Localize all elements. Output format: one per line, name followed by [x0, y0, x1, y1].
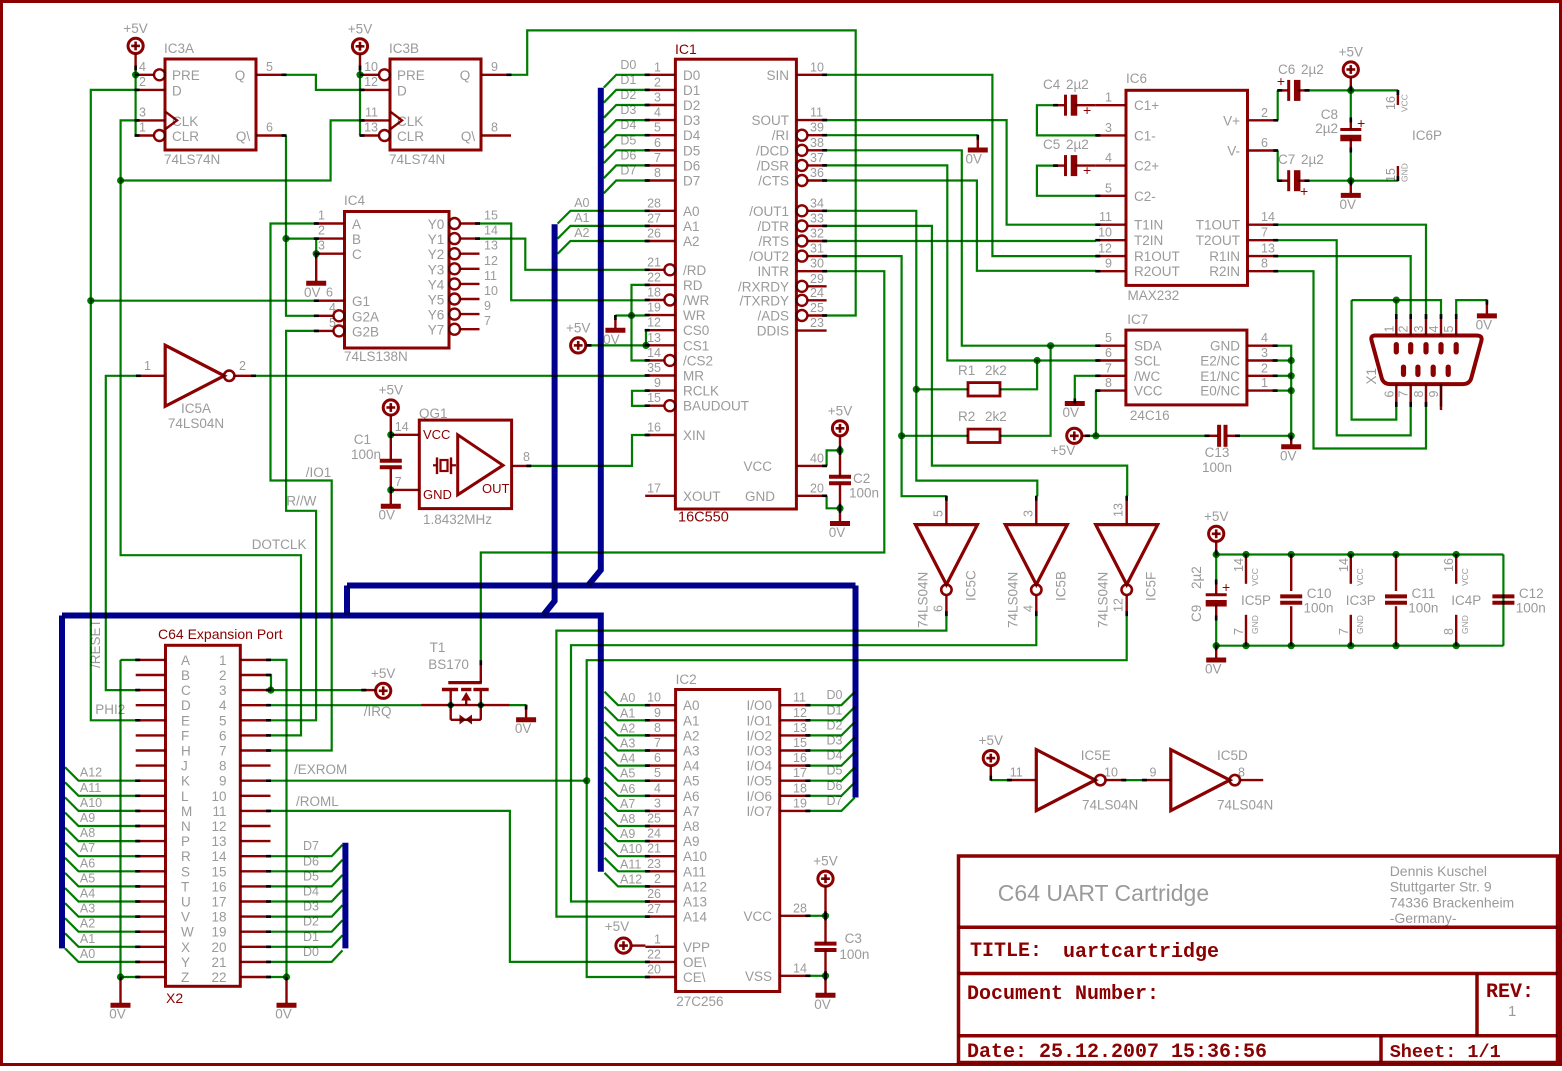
svg-text:RD: RD	[683, 278, 703, 293]
svg-text:0V: 0V	[109, 1007, 126, 1022]
svg-text:24C16: 24C16	[1130, 408, 1170, 423]
svg-text:12: 12	[1112, 598, 1126, 612]
svg-text:Stuttgarter Str. 9: Stuttgarter Str. 9	[1390, 879, 1492, 895]
svg-text:25: 25	[810, 301, 824, 315]
svg-text:T1: T1	[430, 640, 446, 655]
capacitor C3 100n	[815, 931, 870, 962]
svg-text:6: 6	[931, 605, 945, 612]
svg-text:1: 1	[654, 60, 661, 74]
svg-text:GND: GND	[423, 487, 452, 502]
svg-text:D0: D0	[827, 688, 843, 702]
ground at /RI	[966, 150, 988, 167]
svg-text:A11: A11	[620, 857, 641, 871]
svg-text:OUT: OUT	[482, 481, 510, 496]
wire /IRQ port pin4 to T1	[271, 704, 422, 719]
ground at IC7 /WC	[1063, 404, 1085, 421]
svg-text:C7: C7	[1278, 152, 1295, 167]
svg-text:13: 13	[647, 331, 661, 345]
svg-text:Date: 25.12.2007 15:36:56: Date: 25.12.2007 15:36:56	[967, 1041, 1267, 1064]
svg-text:0V: 0V	[1280, 448, 1297, 463]
+5V supply at port	[371, 666, 395, 699]
svg-text:100n: 100n	[1202, 460, 1232, 475]
+5V supply at IC5E input	[979, 733, 1003, 780]
svg-text:/ROML: /ROML	[296, 794, 339, 809]
power pins IC4P	[1442, 555, 1481, 646]
svg-text:D1: D1	[683, 83, 700, 98]
svg-text:/IO1: /IO1	[306, 465, 332, 480]
svg-text:2: 2	[1397, 326, 1411, 333]
svg-text:22: 22	[647, 947, 661, 961]
svg-text:C5: C5	[1043, 137, 1060, 152]
svg-text:100n: 100n	[1516, 601, 1546, 616]
svg-text:OE\: OE\	[683, 955, 707, 970]
svg-text:IC4P: IC4P	[1451, 593, 1481, 608]
svg-text:C2+: C2+	[1134, 159, 1159, 174]
+5V supply at C9	[1204, 509, 1228, 555]
power pins IC3P	[1337, 555, 1376, 646]
ground at C7/C8	[1340, 195, 1361, 212]
svg-text:6: 6	[266, 121, 273, 135]
svg-text:C1+: C1+	[1134, 98, 1159, 113]
svg-text:D2: D2	[827, 718, 843, 732]
svg-text:74LS138N: 74LS138N	[344, 349, 408, 364]
bus V2 data bus at IC1	[588, 88, 601, 586]
svg-text:A1: A1	[80, 932, 95, 946]
svg-text:IC5C: IC5C	[963, 570, 978, 601]
svg-text:C64 Expansion Port: C64 Expansion Port	[158, 626, 283, 642]
svg-text:8: 8	[654, 721, 661, 735]
wire IC1 GND to C2 and ground	[827, 484, 844, 522]
svg-text:VCC: VCC	[743, 459, 772, 474]
svg-text:VCC: VCC	[423, 427, 450, 442]
svg-text:SDA: SDA	[1134, 339, 1162, 354]
svg-text:8: 8	[1442, 628, 1456, 635]
svg-text:14: 14	[1337, 558, 1351, 572]
svg-text:A: A	[181, 653, 190, 668]
wire C8 vertical net	[1347, 90, 1354, 184]
wire MAX232 T1OUT to X1 pin3	[1278, 225, 1426, 315]
wire IC5E output to IC5D input	[1126, 779, 1143, 781]
capacitor C4 2u2	[1043, 77, 1091, 118]
bus data stub at port right	[342, 843, 348, 949]
UART IC1 16C550	[645, 41, 826, 526]
svg-text:2: 2	[139, 75, 146, 89]
driver IC6 MAX232	[1096, 71, 1278, 303]
svg-text:8: 8	[491, 121, 498, 135]
svg-text:T1IN: T1IN	[1134, 218, 1163, 233]
svg-text:D4: D4	[620, 118, 636, 132]
svg-text:39: 39	[810, 121, 824, 135]
wire IC5F output to IC2 CE and /EXROM	[271, 616, 1127, 977]
ground at port right	[275, 1005, 296, 1022]
svg-text:74LS04N: 74LS04N	[168, 416, 224, 431]
power pins IC5P	[1232, 555, 1271, 646]
+5V supply at QG1	[379, 383, 403, 416]
svg-text:C9: C9	[1189, 605, 1204, 622]
svg-text:N: N	[181, 819, 191, 834]
svg-text:GND: GND	[1460, 615, 1470, 634]
svg-text:XIN: XIN	[683, 428, 706, 443]
wire MAX232 R1IN to X1 pin2	[1278, 256, 1411, 314]
svg-text:9: 9	[1427, 391, 1441, 398]
svg-text:5: 5	[329, 316, 336, 330]
svg-text:PRE: PRE	[397, 68, 425, 83]
svg-text:C3: C3	[845, 931, 862, 946]
svg-text:A2: A2	[683, 234, 700, 249]
svg-text:16: 16	[647, 421, 661, 435]
svg-text:0V: 0V	[1476, 317, 1493, 332]
svg-text:74LS04N: 74LS04N	[1005, 572, 1020, 628]
bus H2 port frame and V2b to IC2	[62, 616, 601, 949]
svg-text:C: C	[181, 683, 191, 698]
svg-text:19: 19	[793, 796, 807, 810]
svg-text:+5V: +5V	[1051, 443, 1075, 458]
svg-text:SIN: SIN	[766, 68, 789, 83]
svg-text:MAX232: MAX232	[1128, 288, 1180, 303]
svg-text:5: 5	[654, 121, 661, 135]
pin connection ticks	[134, 66, 1488, 981]
+5V supply at IC3B PRE	[348, 21, 372, 70]
svg-text:100n: 100n	[1304, 601, 1334, 616]
svg-text:A1: A1	[620, 706, 635, 720]
svg-text:A5: A5	[683, 774, 700, 789]
svg-text:C11: C11	[1412, 586, 1436, 601]
svg-text:8: 8	[1261, 257, 1268, 271]
svg-text:A0: A0	[683, 698, 700, 713]
svg-text:/EXROM: /EXROM	[294, 762, 347, 777]
svg-text:74336 Brackenheim: 74336 Brackenheim	[1390, 894, 1515, 910]
svg-text:36: 36	[810, 166, 824, 180]
svg-text:G2B: G2B	[352, 324, 379, 339]
svg-text:D0: D0	[303, 945, 319, 959]
svg-text:I/O6: I/O6	[746, 789, 772, 804]
svg-text:11: 11	[365, 106, 378, 120]
eeprom IC7 24C16	[1096, 312, 1277, 423]
svg-text:CLR: CLR	[397, 129, 424, 144]
svg-text:9: 9	[484, 299, 491, 313]
svg-text:2: 2	[654, 872, 661, 886]
svg-text:CLK: CLK	[397, 114, 423, 129]
svg-text:7: 7	[395, 475, 402, 489]
svg-text:R1OUT: R1OUT	[1134, 249, 1180, 264]
svg-text:A8: A8	[683, 819, 700, 834]
svg-text:/RI: /RI	[772, 128, 789, 143]
svg-text:/CS2: /CS2	[683, 353, 713, 368]
svg-text:9: 9	[654, 376, 661, 390]
wire DOTCLK net (port pin6 to IC3A/IC3B CLK)	[117, 120, 360, 735]
svg-text:16: 16	[1442, 558, 1456, 572]
svg-text:T2IN: T2IN	[1134, 233, 1163, 248]
svg-text:GND: GND	[1250, 615, 1260, 634]
svg-text:/WC: /WC	[1134, 369, 1160, 384]
svg-text:12: 12	[1098, 242, 1112, 256]
svg-text:I/O1: I/O1	[746, 713, 772, 728]
ground at QG1	[379, 506, 401, 523]
svg-text:Y7: Y7	[428, 323, 445, 338]
wire MAX232 V- to C7	[1278, 151, 1351, 181]
svg-text:A3: A3	[683, 744, 700, 759]
wire IC2 VSS to C3 and ground	[810, 950, 829, 993]
svg-text:Q: Q	[235, 68, 246, 83]
svg-text:26: 26	[647, 887, 661, 901]
flip-flop IC3B 74LS74N	[360, 41, 511, 167]
svg-text:D4: D4	[827, 749, 843, 763]
svg-text:D3: D3	[827, 734, 843, 748]
svg-text:C13: C13	[1205, 445, 1230, 460]
svg-text:3: 3	[1412, 326, 1426, 333]
svg-text:Y1: Y1	[428, 232, 445, 247]
svg-text:19: 19	[211, 925, 226, 940]
svg-text:D6: D6	[827, 779, 843, 793]
wire /OUT1 to IC5B input (R1 tap)	[827, 211, 1038, 496]
svg-text:3: 3	[1105, 121, 1112, 135]
+5V supply at IC3A PRE	[123, 21, 147, 70]
wire C7 to ground	[1350, 181, 1352, 193]
svg-text:22: 22	[647, 270, 661, 284]
wire R2 to SDA	[902, 342, 1055, 436]
svg-text:2k2: 2k2	[985, 363, 1007, 378]
+5V supply at IC1 CS1	[566, 320, 591, 353]
svg-text:A11: A11	[80, 781, 101, 795]
svg-text:IC1: IC1	[675, 41, 697, 57]
svg-text:R1IN: R1IN	[1209, 249, 1240, 264]
svg-text:Sheet: 1/1: Sheet: 1/1	[1390, 1042, 1501, 1063]
wires A12-A0 bus entries at port	[65, 766, 136, 962]
svg-text:A12: A12	[683, 879, 707, 894]
svg-text:10: 10	[810, 60, 824, 74]
svg-text:4: 4	[1261, 331, 1268, 345]
svg-text:C64 UART Cartridge: C64 UART Cartridge	[998, 880, 1209, 906]
svg-text:3: 3	[654, 796, 661, 810]
svg-text:Y6: Y6	[428, 308, 445, 323]
svg-text:38: 38	[810, 136, 824, 150]
svg-text:74LS04N: 74LS04N	[915, 572, 930, 628]
svg-text:X1: X1	[1364, 368, 1379, 385]
svg-text:A10: A10	[80, 796, 102, 810]
wire C5 to MAX232 C2+/C2-	[1037, 166, 1096, 196]
inverter IC5D 74LS04N	[1142, 748, 1273, 813]
svg-text:/WR: /WR	[683, 293, 709, 308]
svg-text:D1: D1	[303, 930, 319, 944]
svg-text:34: 34	[810, 196, 824, 210]
svg-text:XOUT: XOUT	[683, 489, 721, 504]
svg-text:IC5D: IC5D	[1217, 748, 1248, 763]
svg-text:I/O5: I/O5	[746, 774, 772, 789]
capacitor C9 2u2	[1189, 555, 1230, 646]
svg-text:D6: D6	[303, 854, 319, 868]
svg-text:A2: A2	[574, 226, 589, 240]
wire +5V to IC3B PRE/CLR	[356, 70, 363, 136]
svg-text:35: 35	[647, 361, 661, 375]
svg-text:R1: R1	[958, 363, 975, 378]
svg-text:1: 1	[144, 359, 151, 373]
svg-text:D3: D3	[620, 103, 636, 117]
svg-text:5: 5	[219, 713, 227, 728]
svg-text:Y4: Y4	[428, 277, 445, 292]
wire MAX232 T2OUT to X1 pin7	[1278, 240, 1411, 435]
svg-text:D7: D7	[620, 164, 636, 178]
svg-text:CE\: CE\	[683, 970, 706, 985]
svg-text:Y2: Y2	[428, 247, 445, 262]
svg-text:13: 13	[484, 239, 498, 253]
svg-text:A2: A2	[80, 917, 95, 931]
svg-text:13: 13	[1112, 503, 1126, 517]
svg-text:CLR: CLR	[172, 129, 199, 144]
svg-text:/DSR: /DSR	[757, 158, 790, 173]
svg-text:9: 9	[1105, 257, 1112, 271]
svg-text:VCC: VCC	[1460, 568, 1470, 586]
svg-text:D1: D1	[620, 73, 636, 87]
svg-text:A0: A0	[683, 204, 700, 219]
+5V supply at IC7 VCC	[1051, 428, 1082, 458]
svg-text:2k2: 2k2	[985, 409, 1007, 424]
connector X2 C64 Expansion Port	[136, 626, 283, 1006]
+5V supply at IC2 VCC	[813, 854, 837, 887]
svg-text:14: 14	[395, 420, 409, 434]
svg-text:A5: A5	[620, 767, 635, 781]
svg-text:I/O4: I/O4	[746, 759, 772, 774]
svg-text:R: R	[181, 849, 191, 864]
svg-text:100n: 100n	[849, 486, 879, 501]
svg-text:D4: D4	[303, 885, 319, 899]
svg-text:D5: D5	[303, 869, 319, 883]
svg-text:/OUT2: /OUT2	[749, 249, 789, 264]
svg-text:4: 4	[1105, 151, 1112, 165]
svg-text:30: 30	[810, 257, 824, 271]
svg-text:A7: A7	[620, 797, 635, 811]
svg-text:7: 7	[1261, 226, 1268, 240]
svg-text:D7: D7	[683, 174, 700, 189]
svg-text:G1: G1	[352, 294, 370, 309]
svg-text:BAUDOUT: BAUDOUT	[683, 399, 749, 414]
svg-text:M: M	[181, 804, 192, 819]
svg-text:A: A	[352, 217, 361, 232]
svg-text:DOTCLK: DOTCLK	[252, 537, 307, 552]
svg-text:+5V: +5V	[1204, 509, 1228, 524]
svg-text:0V: 0V	[1063, 405, 1080, 420]
wire SIN to MAX232 R1OUT	[827, 75, 1096, 256]
svg-text:2: 2	[654, 75, 661, 89]
svg-text:14: 14	[484, 224, 498, 238]
svg-text:I/O0: I/O0	[746, 698, 772, 713]
svg-text:INTR: INTR	[758, 264, 790, 279]
wire +5V to IC1 CS0/CS1	[591, 331, 650, 349]
svg-text:5: 5	[266, 60, 273, 74]
svg-text:+: +	[1300, 183, 1308, 199]
svg-text:E0/NC: E0/NC	[1200, 384, 1240, 399]
svg-text:A12: A12	[620, 872, 642, 886]
wire SOUT to MAX232 T1IN	[827, 120, 1096, 225]
wire C1 to QG1 GND and ground	[387, 435, 394, 504]
wire IC3A Q to IC3B D	[286, 75, 360, 90]
svg-text:-Germany-: -Germany-	[1390, 910, 1457, 926]
svg-text:8: 8	[219, 759, 227, 774]
svg-text:J: J	[181, 759, 188, 774]
ground at C13	[1280, 447, 1301, 464]
svg-text:22: 22	[211, 970, 226, 985]
svg-text:6: 6	[1261, 136, 1268, 150]
svg-text:GND: GND	[1210, 339, 1240, 354]
svg-text:7: 7	[1337, 628, 1351, 635]
wire C9 to ground	[1215, 646, 1217, 658]
svg-text:74LS74N: 74LS74N	[164, 152, 220, 167]
transistor T1 BS170	[421, 640, 510, 725]
svg-text:E1/NC: E1/NC	[1200, 369, 1240, 384]
svg-text:3: 3	[219, 683, 227, 698]
wire +5V to IC3A PRE/CLR	[132, 70, 139, 136]
svg-text:2: 2	[318, 224, 325, 238]
svg-text:0V: 0V	[829, 525, 846, 540]
svg-text:10: 10	[211, 789, 226, 804]
svg-text:T1OUT: T1OUT	[1196, 218, 1240, 233]
svg-text:D0: D0	[683, 68, 700, 83]
svg-text:D4: D4	[683, 128, 701, 143]
svg-text:V+: V+	[1223, 113, 1240, 128]
svg-text:5: 5	[931, 510, 945, 517]
svg-text:+5V: +5V	[979, 733, 1003, 748]
svg-text:A1: A1	[683, 219, 700, 234]
svg-text:C6: C6	[1278, 62, 1295, 77]
capacitor C13 100n	[1202, 425, 1232, 475]
svg-text:D0: D0	[620, 58, 636, 72]
svg-text:12: 12	[211, 819, 226, 834]
wire R//W net (IC4 G2B to port pin 5)	[271, 331, 317, 720]
svg-text:2µ2: 2µ2	[1301, 152, 1324, 167]
svg-text:S: S	[181, 864, 190, 879]
svg-text:A9: A9	[683, 834, 700, 849]
svg-text:E: E	[181, 713, 190, 728]
svg-text:10: 10	[364, 60, 378, 74]
inverter IC5A 74LS04N	[136, 345, 255, 431]
svg-text:16: 16	[793, 751, 807, 765]
capacitor C8 2u2	[1315, 107, 1365, 138]
connector X1 DB9	[1364, 315, 1482, 411]
svg-text:21: 21	[647, 255, 661, 269]
svg-text:0V: 0V	[275, 1007, 292, 1022]
wire /RTS to MAX232 T2IN	[827, 240, 1096, 242]
svg-text:2: 2	[239, 359, 246, 373]
svg-text:R2IN: R2IN	[1209, 264, 1240, 279]
svg-text:15: 15	[793, 736, 807, 750]
ground at port left	[109, 1005, 130, 1022]
svg-text:37: 37	[810, 151, 824, 165]
wire IC7 GND/E pins to ground	[1277, 346, 1295, 445]
svg-text:A8: A8	[620, 812, 635, 826]
ground at C3	[814, 995, 835, 1012]
svg-text:25: 25	[647, 812, 661, 826]
svg-text:10: 10	[647, 691, 661, 705]
svg-text:DDIS: DDIS	[757, 324, 789, 339]
svg-text:9: 9	[491, 60, 498, 74]
svg-text:27: 27	[647, 211, 661, 225]
svg-text:100n: 100n	[351, 447, 381, 462]
wire port GND rows 1 and 22	[271, 660, 291, 1003]
svg-text:31: 31	[810, 242, 824, 256]
svg-text:E2/NC: E2/NC	[1200, 354, 1240, 369]
svg-text:C2: C2	[853, 471, 870, 486]
svg-text:IC4: IC4	[344, 193, 366, 208]
svg-text:4: 4	[139, 60, 146, 74]
wires A0-A2 bus entries at IC1	[558, 196, 646, 254]
+5V supply at C8	[1339, 45, 1363, 91]
svg-text:/CTS: /CTS	[758, 174, 789, 189]
svg-text:D1: D1	[827, 703, 843, 717]
svg-text:23: 23	[647, 857, 661, 871]
svg-text:/RESET: /RESET	[88, 619, 103, 668]
svg-text:0V: 0V	[1340, 197, 1357, 212]
ground at IC1 WR	[603, 330, 625, 347]
svg-text:3: 3	[1021, 510, 1035, 517]
